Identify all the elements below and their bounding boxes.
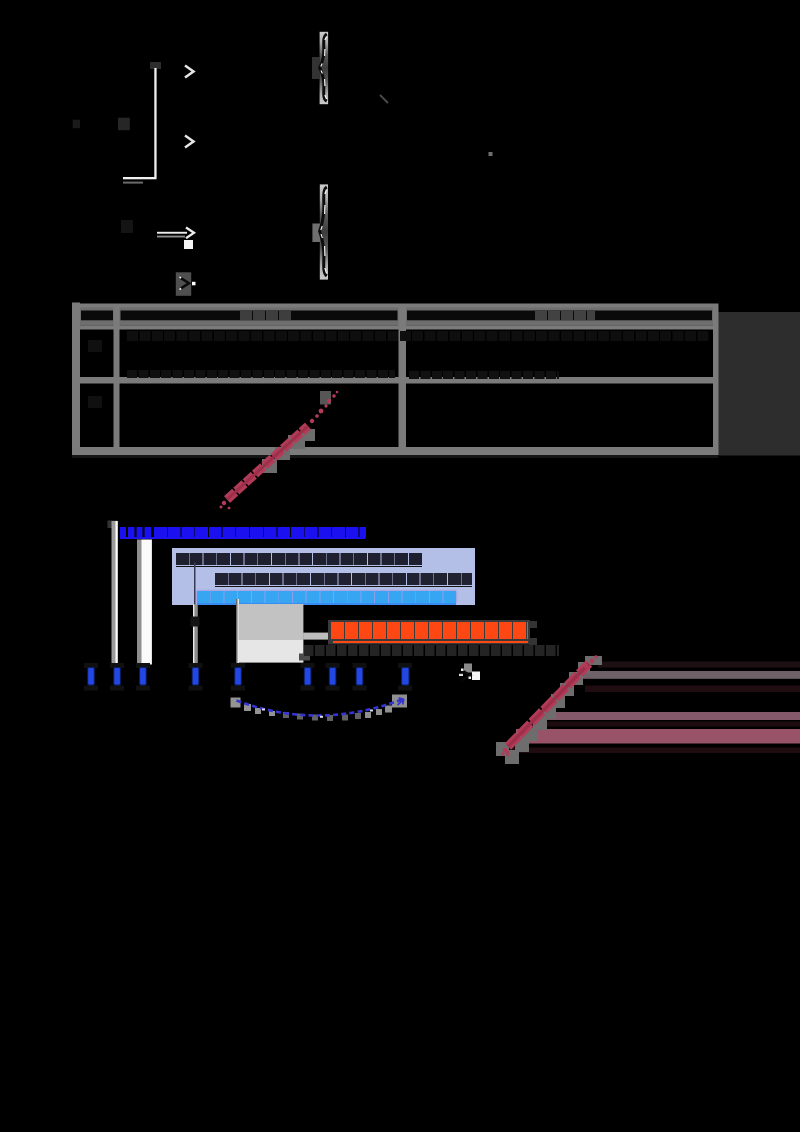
- faint blob C: [121, 220, 133, 233]
- maroon arrow 1 gray staircase: [262, 459, 277, 473]
- callout box upper: [239, 604, 304, 640]
- branch chevron 2: [185, 136, 194, 148]
- bottom arrow white dot: [192, 282, 196, 286]
- arrow2 gray staircase: [496, 656, 602, 764]
- faint blob A: [73, 120, 80, 129]
- orange text: [331, 622, 528, 639]
- tree trunk vertical: [154, 68, 156, 179]
- connector line 3 gray: [137, 540, 142, 666]
- callout box lower: [239, 640, 304, 663]
- brace 2 gray blob: [312, 224, 320, 243]
- blue heading underline: [120, 537, 365, 539]
- box line1: [176, 553, 422, 565]
- callout connector bar: [303, 633, 328, 640]
- brace strip 1: [320, 32, 329, 104]
- faint subtext: [304, 645, 559, 656]
- brace 1 gray blob: [312, 57, 320, 79]
- misc gray dot: [489, 152, 493, 156]
- timeline end white block: [472, 672, 480, 681]
- table right shadow: [719, 312, 800, 456]
- blue heading text: [154, 527, 366, 539]
- connector line 3 white band: [142, 540, 152, 665]
- dashed arc: [237, 700, 403, 716]
- table faint texts: [240, 311, 292, 320]
- brace 2 sparkles: [321, 190, 327, 274]
- faint blob B: [118, 118, 130, 131]
- orange textbox bg: [328, 620, 530, 645]
- connector line 4 gray: [195, 605, 198, 617]
- connector line 2 white: [116, 521, 118, 668]
- bottom arrow gray block: [176, 272, 191, 296]
- maroon arrow 1 stroke: [227, 426, 308, 500]
- arc white dash glints: [262, 709, 373, 718]
- mid arrow head: [186, 228, 194, 239]
- branch chevron 1: [185, 66, 194, 78]
- arc gray blocks: [231, 698, 276, 717]
- header cell fills: [80, 308, 114, 326]
- mid arrow white blob: [184, 240, 193, 249]
- connector line 2 gray: [112, 521, 116, 668]
- box line3 blue: [197, 591, 456, 603]
- maroon arrow 1 tip speckles: [220, 391, 339, 510]
- tree corner horizontal white: [123, 177, 157, 179]
- brace 2 white highlight: [320, 188, 327, 277]
- mid arrow shaft: [157, 232, 187, 234]
- timeline end sparkles: [459, 674, 463, 676]
- timeline end black chevron: [462, 671, 470, 681]
- connector line 4 in-box: [194, 563, 196, 605]
- maroon arrow 2 stroke: [508, 664, 589, 747]
- blue heading digits 2000: [120, 527, 153, 538]
- misc faint mark top: [380, 95, 388, 103]
- orange handle: [299, 654, 310, 661]
- table bottom shadow: [72, 455, 718, 458]
- bottom arrow black chevron: [181, 278, 189, 288]
- arc arrowhead: [398, 698, 404, 705]
- brace strip 2: [320, 184, 328, 279]
- brace 1 sparkles: [321, 37, 327, 100]
- arrow 2 tip/tail speckles: [501, 655, 597, 756]
- tree trunk cap: [150, 62, 161, 69]
- connector cap line2: [108, 521, 118, 529]
- connector line 4 dark arrow blob: [191, 617, 200, 627]
- header black strip: [81, 311, 113, 321]
- timeline dark caps: [84, 663, 412, 691]
- brace 1 white highlight: [320, 35, 327, 102]
- tree gray under-line: [123, 182, 143, 184]
- bottom arrow white sparkle: [180, 277, 190, 290]
- arrow2 ghost streaks: [504, 662, 800, 754]
- timeline markers: [88, 668, 409, 686]
- table borders: [72, 303, 80, 456]
- mid arrow gray shadow: [157, 236, 185, 238]
- timeline end gray block: [464, 664, 472, 673]
- lavender box: [172, 548, 475, 605]
- connector line 5: [236, 599, 238, 668]
- brace 2 black body: [320, 187, 327, 276]
- box line2: [215, 573, 472, 585]
- connector line 4 white: [193, 605, 195, 617]
- brace 1 black body: [320, 34, 327, 101]
